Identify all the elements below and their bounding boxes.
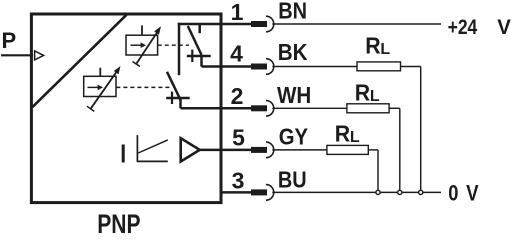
characteristic curve ramp <box>138 140 168 153</box>
connector pin 1 plug <box>251 21 267 27</box>
svg-text:0: 0 <box>448 180 458 205</box>
svg-text:4: 4 <box>230 41 243 67</box>
switch S2 contact bar <box>166 97 190 100</box>
resistor RL3 (GY load) <box>327 145 368 154</box>
junction GY on 0V rail <box>376 190 380 194</box>
feed bar to switch S2 <box>178 23 181 75</box>
wire WH to resistor <box>272 107 347 109</box>
svg-text:R: R <box>335 121 351 147</box>
svg-text:BN: BN <box>278 0 307 23</box>
svg-text:V: V <box>497 16 511 39</box>
svg-text:3: 3 <box>232 168 245 194</box>
svg-text:V: V <box>466 180 479 205</box>
connector pin 1 socket arc <box>266 16 274 32</box>
internal diagonal divider <box>32 15 126 107</box>
svg-text:R: R <box>365 33 381 59</box>
wire BK to resistor <box>272 66 357 68</box>
svg-text:WH: WH <box>277 82 311 108</box>
connector pin 5 plug <box>251 147 267 153</box>
dashed link A2 to switch S2 <box>116 86 172 88</box>
junction WH on 0V rail <box>398 190 402 194</box>
A1 arrow tail tick <box>133 62 140 67</box>
switch S1 arm <box>188 26 202 55</box>
connector pin 3 plug <box>251 189 267 195</box>
switch S1 tick <box>191 50 193 62</box>
resistor RL1 (BK load) <box>357 62 401 71</box>
svg-text:BK: BK <box>278 39 308 65</box>
wire pin1 feed <box>178 23 252 26</box>
wire RL2 to drop <box>389 107 400 109</box>
switch S1 contact bar <box>187 55 211 58</box>
drop wire WH <box>399 108 401 192</box>
A1 top stub <box>141 25 143 35</box>
setpoint adjuster A2 (lower) <box>84 76 116 96</box>
characteristic curve axes <box>137 135 168 161</box>
svg-text:1: 1 <box>231 0 244 25</box>
sensor body box U1 <box>31 14 221 203</box>
wire RL1 to drop <box>401 66 421 68</box>
wire pin3 <box>220 191 252 194</box>
svg-text:5: 5 <box>232 124 245 150</box>
svg-text:+24: +24 <box>448 16 478 39</box>
A1 adjustability arrow <box>136 33 157 65</box>
switch S1 fixed contact stub <box>198 24 201 33</box>
connector pin 5 socket arc <box>266 142 274 158</box>
A1 inner arrow <box>131 42 147 48</box>
setpoint adjuster A1 (upper) <box>126 35 158 55</box>
wire BU 0V rail <box>272 191 441 193</box>
pressure input arrowhead <box>35 51 44 60</box>
wire RL3 to drop <box>368 149 378 151</box>
switch S1 output drop <box>200 56 203 67</box>
connector pin 4 plug <box>251 64 267 70</box>
A2 inner arrow <box>88 85 104 91</box>
label I (analog output) <box>122 145 125 163</box>
resistor RL2 (WH load) <box>347 104 389 113</box>
A2 arrow tail tick <box>87 106 94 111</box>
svg-text:L: L <box>370 88 380 105</box>
wire GY to resistor <box>272 149 327 151</box>
svg-text:L: L <box>350 129 360 146</box>
svg-text:GY: GY <box>279 124 308 150</box>
switch S2 arm <box>167 72 181 100</box>
wire pin5 <box>200 149 252 152</box>
svg-text:L: L <box>380 41 390 58</box>
drop wire GY <box>377 150 379 193</box>
A2 top stub <box>99 68 101 77</box>
dashed link A1 to switch S1 <box>158 44 189 46</box>
connector pin 3 socket arc <box>266 185 274 201</box>
switch S2 output drop <box>179 98 182 108</box>
pressure input wire <box>1 54 33 56</box>
amplifier triangle <box>181 138 200 161</box>
drop wire BK <box>420 67 422 193</box>
connector pin 4 socket arc <box>266 59 274 75</box>
switch S2 tick <box>171 92 173 104</box>
wire pin4 <box>202 65 252 68</box>
connector pin 2 plug <box>251 105 267 111</box>
connector pin 2 socket arc <box>266 101 274 117</box>
svg-text:BU: BU <box>278 166 307 192</box>
svg-text:PNP: PNP <box>97 209 140 235</box>
svg-text:2: 2 <box>231 83 244 109</box>
wire pin2 <box>181 107 252 110</box>
svg-text:P: P <box>2 28 17 53</box>
wire BN to +24V <box>272 23 441 25</box>
A2 adjustability arrow <box>91 72 117 109</box>
svg-text:R: R <box>355 80 371 106</box>
junction BK on 0V rail <box>419 190 423 194</box>
